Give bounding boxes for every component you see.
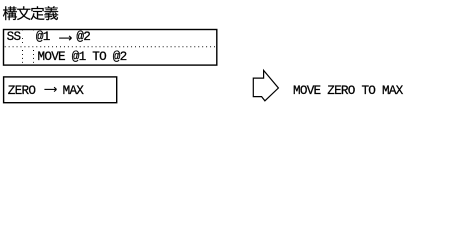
text @1 [36, 31, 50, 44]
dotted vertical column 1 lower [22, 50, 24, 63]
dotted vertical column 2 in box 1 (upper dot) [33, 29, 35, 32]
title 構文定義 [3, 6, 58, 20]
text MOVE ZERO TO MAX [293, 85, 403, 98]
box 2 (ZERO -> MAX box) [4, 77, 117, 103]
text @2 [76, 31, 90, 44]
arrow glyph in box2 [44, 87, 56, 91]
text MOVE @1 TO @2 [38, 51, 127, 64]
arrow glyph in box1 row1 (@1 -> @2) [59, 36, 71, 40]
text MAX [63, 85, 84, 98]
block arrow (outline, pointing right) [253, 70, 278, 100]
dotted vertical column 2 lower [33, 50, 35, 63]
dotted vertical column 1 in box 1 (upper sparse dots) [22, 30, 24, 44]
text SS [7, 31, 21, 44]
box 1 (syntax template box) [4, 30, 217, 66]
dotted horizontal divider in box 1 [5, 46, 216, 48]
text ZERO [8, 85, 35, 98]
